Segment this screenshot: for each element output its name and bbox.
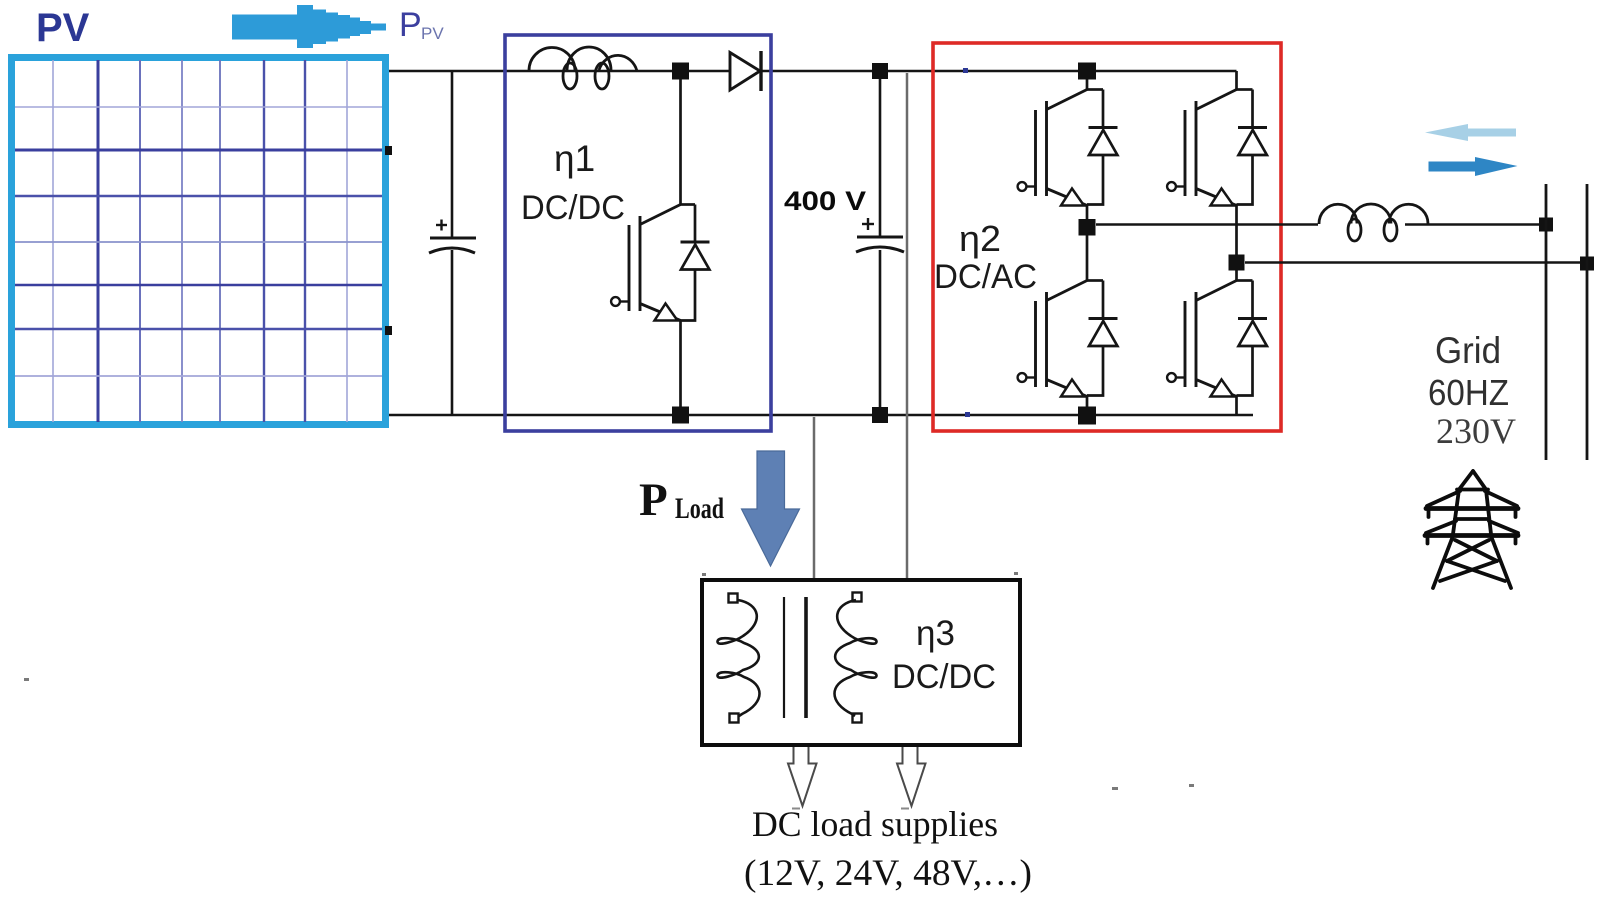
svg-text:DC/AC: DC/AC [934,258,1037,296]
svg-text:230V: 230V [1436,411,1516,451]
svg-text:η1: η1 [554,138,595,179]
svg-text:Load: Load [675,492,724,525]
svg-text:PV: PV [36,6,90,50]
svg-text:DC load supplies: DC load supplies [752,804,998,844]
svg-text:η3: η3 [916,614,955,653]
svg-text:60HZ: 60HZ [1428,372,1509,413]
svg-text:(12V, 24V, 48V,…): (12V, 24V, 48V,…) [744,853,1032,894]
svg-text:Grid: Grid [1435,330,1501,371]
svg-text:DC/DC: DC/DC [892,658,996,696]
svg-text:PV: PV [421,24,444,43]
svg-text:400 V: 400 V [784,186,866,216]
svg-text:P: P [639,474,668,526]
svg-text:P: P [399,6,422,44]
svg-text:η2: η2 [959,218,1001,259]
svg-text:DC/DC: DC/DC [521,189,625,227]
